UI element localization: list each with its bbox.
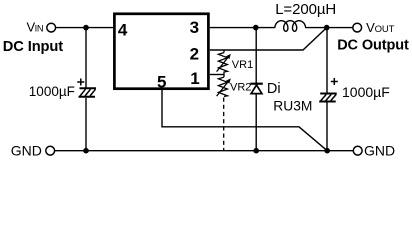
wire dashed VR2 to ground: [223, 98, 225, 151]
wire VIN to pin 4: [56, 27, 113, 29]
svg-text:1: 1: [190, 69, 199, 88]
svg-text:1000µF: 1000µF: [342, 84, 390, 100]
resistor VR1: [217, 50, 230, 75]
junction C-in ground: [83, 148, 89, 154]
svg-text:GND: GND: [11, 142, 42, 158]
svg-text:2: 2: [190, 45, 199, 64]
capacitor C-out polarity plus: [331, 78, 338, 85]
ground rail: [55, 150, 353, 152]
wire C-out to ground rail: [326, 103, 328, 151]
wire C-in to ground rail: [85, 98, 87, 151]
inductor L 200uH: [275, 21, 306, 32]
capacitor C-in plates: [79, 88, 97, 97]
wire diode anode to ground rail: [255, 94, 257, 151]
wire pin 2 feedback: [210, 28, 327, 50]
svg-text:VR2: VR2: [230, 81, 251, 93]
svg-text:GND: GND: [364, 142, 395, 158]
node GND left terminal: [46, 146, 55, 155]
junction output node: [324, 25, 330, 31]
node VOUT terminal: [353, 23, 362, 32]
capacitor C-out plates: [319, 94, 337, 102]
svg-text:5: 5: [157, 72, 166, 91]
svg-text:VR1: VR1: [232, 59, 253, 71]
svg-text:OUT: OUT: [375, 24, 395, 35]
capacitor C-in 1000uF polarity plus: [77, 79, 84, 86]
resistor VR2: [217, 75, 230, 97]
node VIN terminal: [47, 23, 56, 32]
svg-text:4: 4: [118, 20, 128, 39]
diode Di RU3M: [250, 84, 262, 94]
wire inductor to VOUT: [305, 27, 353, 29]
junction C-out ground: [324, 148, 330, 154]
svg-text:RU3M: RU3M: [273, 99, 312, 114]
junction diode ground: [253, 148, 259, 154]
junction switch node: [253, 25, 259, 31]
junction input node: [83, 25, 89, 31]
wire pin 1: [210, 74, 224, 76]
svg-text:Di: Di: [267, 81, 281, 97]
svg-text:3: 3: [190, 18, 199, 37]
wire pin 5 to ground: [162, 89, 327, 150]
wire input node down to C-in: [85, 28, 87, 88]
svg-text:1000µF: 1000µF: [29, 84, 75, 99]
wire pin 3 to switch node: [210, 27, 275, 29]
svg-text:L=200µH: L=200µH: [275, 1, 336, 18]
wire output node down to C-out: [326, 28, 328, 94]
svg-text:DC Output: DC Output: [337, 37, 409, 53]
node GND right terminal: [353, 146, 362, 155]
svg-text:DC Input: DC Input: [3, 39, 63, 55]
svg-text:IN: IN: [35, 24, 44, 34]
regulator IC box: [114, 14, 208, 89]
wire switch node down to diode: [255, 28, 257, 83]
